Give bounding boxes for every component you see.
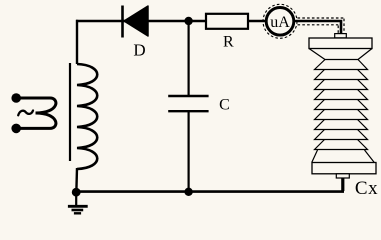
wire top bus xyxy=(76,20,267,22)
bushing Cx shed stack xyxy=(309,49,374,163)
wire bottom bus xyxy=(76,190,344,193)
ground xyxy=(68,192,88,214)
node G junction dot (bottom left, transformer/ground) xyxy=(72,188,81,197)
svg-text:uA: uA xyxy=(270,14,290,31)
transformer T1 primary winding xyxy=(16,98,56,128)
diode D xyxy=(123,6,149,60)
transformer T1 core xyxy=(69,63,71,161)
svg-text:Cx: Cx xyxy=(355,178,378,199)
node A junction dot (top, diode/capacitor/resistor) xyxy=(184,17,192,25)
label AC source tilde xyxy=(18,111,33,116)
node B junction dot (bottom, capacitor/bus) xyxy=(184,188,192,196)
bushing Cx bottom terminal box xyxy=(336,174,349,178)
meter uA (microammeter) xyxy=(263,4,297,38)
svg-text:D: D xyxy=(133,41,145,60)
bushing Cx top terminal box xyxy=(335,34,347,38)
bushing Cx bottom flange xyxy=(312,163,376,174)
wire left drop from top bus to transformer secondary xyxy=(76,20,78,64)
svg-text:R: R xyxy=(223,34,234,51)
bushing Cx top flange xyxy=(309,38,372,49)
source terminal dot lower xyxy=(11,124,21,134)
capacitor C xyxy=(168,21,230,191)
resistor R xyxy=(206,14,248,51)
wire shielded cable from meter to bushing xyxy=(294,18,344,36)
transformer T1 secondary winding xyxy=(76,64,97,190)
wire bushing bottom lead xyxy=(341,178,344,191)
svg-text:C: C xyxy=(219,97,230,114)
source terminal dot upper xyxy=(11,93,21,103)
label Cx xyxy=(355,178,378,199)
